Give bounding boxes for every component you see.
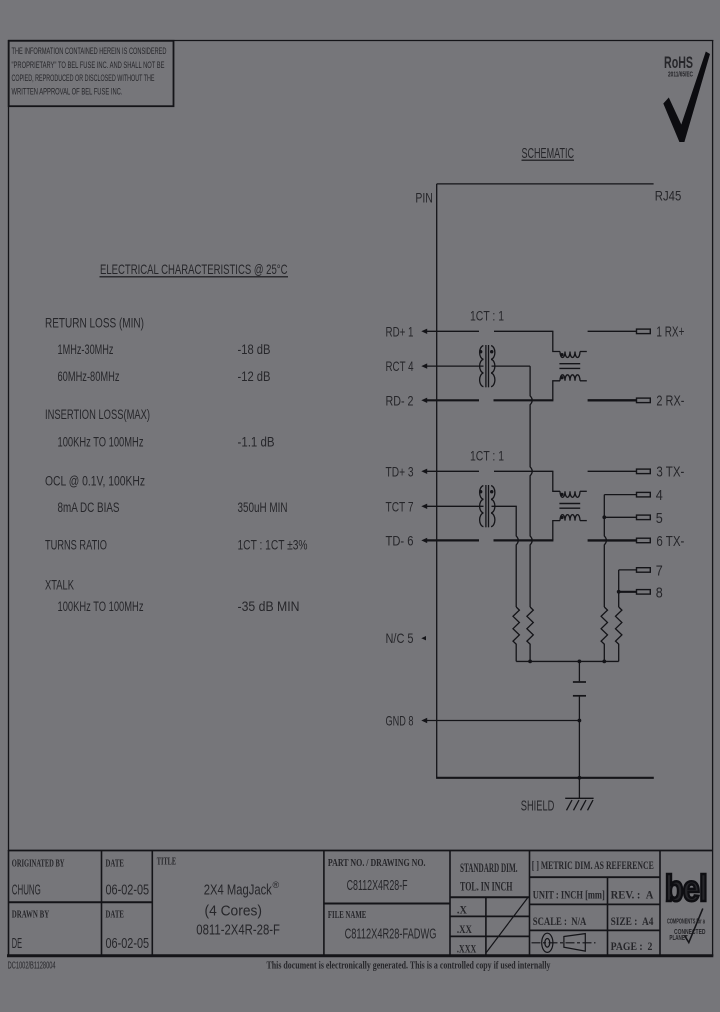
node bel swoosh [685,909,703,943]
resistor R1 (TCT termination) [513,607,519,661]
svg-text:"PROPRIETARY" TO BEL FUSE INC.: "PROPRIETARY" TO BEL FUSE INC. AND SHALL… [12,60,165,71]
node arrow RD- [421,398,427,403]
node junction R3-bus [602,660,606,664]
node L2 top phase dot [560,493,563,496]
wire pad78 vertical [618,570,620,607]
svg-text:STANDARD DIM.: STANDARD DIM. [460,860,518,875]
node arrow GND [421,718,427,723]
ROHS-LOGO [663,52,710,143]
svg-text:DE: DE [12,936,22,952]
svg-text:100KHz TO 100MHz: 100KHz TO 100MHz [58,599,144,614]
wire divider scale-page [530,929,661,931]
capacitor C1 top plate [573,681,586,683]
svg-text:2 RX-: 2 RX- [656,393,684,410]
node junction GND-shield [578,719,582,723]
pin pad 4 [637,492,651,497]
svg-text:DATE: DATE [106,858,124,869]
SPEC-TEXT-BLOCK [45,261,308,614]
symbol projection centerline [532,942,596,944]
svg-text:7: 7 [656,562,663,579]
svg-text:1CT : 1CT ±3%: 1CT : 1CT ±3% [238,538,308,553]
svg-text:SIZE : A4: SIZE : A4 [611,914,654,928]
transformer T2 secondary winding [491,486,495,527]
node T1 secondary phase dot [490,350,493,353]
pin pad 6 [637,538,651,543]
svg-text:DRAWN BY: DRAWN BY [12,909,50,920]
svg-text:2011/65/EC: 2011/65/EC [668,70,693,79]
svg-text:RETURN LOSS (MIN): RETURN LOSS (MIN) [45,316,144,331]
node arrow N/C (no wire) [421,636,426,640]
SCHEMATIC-BOX [436,184,654,778]
TITLE-BLOCK-TEXT [12,856,654,955]
svg-text:TD- 6: TD- 6 [386,532,414,548]
pin pad 3 [637,469,651,474]
node junction pad4-pad5 [602,515,606,519]
wire divider unit-scale [530,903,661,905]
wire TX+ secondary top [494,470,553,472]
wire pad6 lead [588,539,637,541]
wire page left border [8,40,10,851]
node junction shield-boxbottom [578,776,582,780]
resistor R4 (pad78 termination) [616,607,622,661]
pin pad 7 [637,568,651,573]
TERMINATION-GROUP [427,366,622,814]
BEL-LOGO [665,868,707,943]
svg-text:SHIELD: SHIELD [521,799,555,815]
svg-text:100KHz TO 100MHz: 100KHz TO 100MHz [58,435,144,450]
wire divider standard-metric [529,850,531,955]
wire pad4 lead [604,494,636,496]
wire choke L1 input bottom [553,381,560,401]
wire divider metric-bel [659,850,661,955]
wire pad1 lead [588,330,637,332]
node arrow TCT [421,504,427,509]
svg-text:INSERTION LOSS(MAX): INSERTION LOSS(MAX) [45,407,150,422]
wire divider tol row2 [450,935,530,937]
svg-text:5: 5 [656,510,663,527]
wire titleblock bottom edge [7,954,713,957]
wire RD+ primary [427,330,480,332]
svg-text:RCT 4: RCT 4 [386,358,414,374]
svg-text:-1.1 dB: -1.1 dB [238,435,275,450]
wire RCT center tap [427,365,484,367]
inductor L1 bottom winding [560,375,580,381]
svg-text:ELECTRICAL CHARACTERISTICS @ 2: ELECTRICAL CHARACTERISTICS @ 25°C [100,261,288,277]
svg-text:SCALE : N/A: SCALE : N/A [533,914,587,928]
wire divider unit-rev [607,877,609,955]
wire divider part-file [324,903,450,905]
svg-text:PART NO. / DRAWING NO.: PART NO. / DRAWING NO. [328,858,426,869]
wire choke L2 output top [580,490,587,492]
svg-text:REV. : A: REV. : A [611,888,654,902]
wire choke L2 input bottom [553,521,560,541]
wire box top edge [437,183,654,185]
svg-text:TITLE: TITLE [157,856,176,867]
svg-text:RD- 2: RD- 2 [386,392,414,408]
symbol projection ellipse inner [545,939,550,948]
svg-text:1 RX+: 1 RX+ [656,324,684,341]
svg-text:C8112X4R28-F: C8112X4R28-F [347,878,408,894]
svg-text:RD+ 1: RD+ 1 [386,323,414,339]
wire bus to capacitor [578,661,580,681]
svg-text:PIN: PIN [415,189,433,205]
node arrow TD- [421,538,427,543]
svg-text:TD+ 3: TD+ 3 [386,463,414,479]
svg-text:8: 8 [656,584,663,601]
node T1 primary phase dot [479,350,482,353]
wire TCT-tap vertical with hop [516,506,518,607]
wire choke L1 output top [580,351,587,353]
inductor L2 bottom winding [560,515,580,521]
pin pad 5 [637,515,651,520]
svg-text:8mA DC BIAS: 8mA DC BIAS [58,500,120,515]
svg-text:.XXX: .XXX [457,941,477,955]
svg-text:XTALK: XTALK [45,578,74,593]
svg-text:OCL @ 0.1V, 100KHz: OCL @ 0.1V, 100KHz [45,474,145,489]
svg-text:®: ® [273,880,280,890]
resistor R3 (pad45 termination) [601,607,607,661]
wire divider metric header [530,876,661,878]
node L1 bottom phase dot [560,376,563,379]
svg-text:60MHz-80MHz: 60MHz-80MHz [58,369,120,384]
LEFT-PIN-LABELS [386,323,414,728]
wire RX+ secondary top [494,330,553,332]
wire pad7 lead [619,569,637,571]
inductor L1 core [559,363,580,365]
transformer T1 primary winding [480,346,484,387]
pin pad 2 [637,398,651,403]
SCHEMATIC-TITLE [522,145,575,162]
wire TD- primary [427,539,480,541]
transformer T1 core [485,345,487,387]
wire tol diagonal slash [486,898,527,953]
RX-GROUP [427,308,685,409]
wire box left edge [436,184,438,778]
node arrow RCT [421,363,427,368]
svg-text:GND 8: GND 8 [386,713,414,729]
wire RX- secondary bottom [494,399,554,401]
TITLE-BLOCK-VALUES [12,878,437,952]
svg-text:TURNS RATIO: TURNS RATIO [45,538,107,553]
svg-text:PAGE : 2: PAGE : 2 [611,939,653,953]
svg-text:WRITTEN APPROVAL OF BEL FUSE I: WRITTEN APPROVAL OF BEL FUSE INC. [12,87,123,98]
wire TX- secondary bottom [494,539,554,541]
node junction R2-bus [528,660,532,664]
svg-text:-18 dB: -18 dB [238,342,271,357]
wire page top border [8,40,713,42]
svg-text:SCHEMATIC: SCHEMATIC [522,145,575,162]
pin pad 1 [637,329,651,334]
svg-text:3 TX-: 3 TX- [656,464,684,481]
svg-text:CHUNG: CHUNG [12,883,41,899]
svg-text:0811-2X4R-28-F: 0811-2X4R-28-F [196,922,280,938]
svg-text:C8112X4R28-FADWG: C8112X4R28-FADWG [345,927,437,943]
wire spec title underline [100,276,289,278]
resistor R2 (RCT termination) [527,607,533,661]
svg-text:FILE NAME: FILE NAME [328,910,366,921]
svg-text:TCT 7: TCT 7 [386,498,414,514]
wire pad45 vertical with hop [604,495,606,607]
wire RD- primary [427,399,480,401]
symbol projection cone [564,934,585,952]
wire choke L2 input top [553,471,560,491]
svg-text:-12 dB: -12 dB [238,369,271,384]
wire pad3 lead [588,470,637,472]
svg-text:N/C 5: N/C 5 [386,630,414,646]
wire pad5 lead [604,516,636,518]
svg-text:.X: .X [457,903,467,917]
svg-text:1CT : 1: 1CT : 1 [470,308,504,323]
node arrow RD+ [421,329,427,334]
svg-text:6 TX-: 6 TX- [656,533,684,550]
wire divider tol row1 [450,915,530,917]
wire pad8 lead [619,591,637,593]
svg-text:(4 Cores): (4 Cores) [205,904,263,920]
ground shield bar [565,797,593,799]
wire titleblock left edge [8,850,10,955]
capacitor C1 bottom plate [573,695,586,697]
FOOTER-NOTES [8,961,551,972]
svg-text:TOL. IN INCH: TOL. IN INCH [460,879,513,894]
DISCLAIMER-BOX [9,41,174,106]
svg-text:-35 dB MIN: -35 dB MIN [238,599,300,614]
wire secondary center tap T2 [492,505,517,507]
PROJECTION-SYMBOL [532,933,596,952]
ground shield hatch [567,800,594,810]
node T2 primary phase dot [479,490,482,493]
svg-text:4: 4 [656,487,663,504]
svg-text:UNIT : INCH [mm]: UNIT : INCH [mm] [533,888,605,902]
svg-text:DC1002/B1128004: DC1002/B1128004 [8,961,56,972]
wire divider names-date [101,850,103,955]
transformer T2 core [485,485,487,527]
svg-text:ORIGINATED BY: ORIGINATED BY [12,858,65,869]
node T2 secondary phase dot [490,490,493,493]
pin pad 8 [637,590,651,595]
node L1 top phase dot [560,353,563,356]
transformer T2 primary winding [480,486,484,527]
wire divider originated-drawn [8,901,152,903]
svg-text:RJ45: RJ45 [655,188,682,204]
svg-text:06-02-05: 06-02-05 [106,883,150,899]
wire termination bus [516,660,619,662]
symbol projection ellipse outer [542,933,553,952]
node arrow TD+ [421,469,427,474]
TX-GROUP [427,448,685,601]
TITLE-BLOCK [7,850,713,956]
wire divider title-part [323,850,325,955]
svg-text:DATE: DATE [106,909,124,920]
inductor L2 top winding [560,491,580,497]
wire divider date-title [151,850,153,955]
wire TCT center tap [427,505,484,507]
svg-text:This document is electronicall: This document is electronically generate… [267,961,551,972]
svg-text:.XX: .XX [457,922,472,936]
wire choke L2 output bottom [580,520,587,522]
wire secondary center tap [492,365,531,367]
svg-text:2X4 MagJack: 2X4 MagJack [204,882,273,898]
wire titleblock top edge [8,850,713,852]
node junction cap-bus [578,660,582,664]
node junction pad7-pad8 [617,590,621,594]
wire capacitor to shield [578,697,580,799]
svg-text:bel: bel [665,868,707,909]
svg-text:COPIED, REPRODUCED OR DISCLOSE: COPIED, REPRODUCED OR DISCLOSED WITHOUT … [12,73,155,84]
svg-text:1CT : 1: 1CT : 1 [470,448,504,463]
node L2 bottom phase dot [560,516,563,519]
wire TD+ primary [427,470,480,472]
svg-text:[ ] METRIC DIM. AS REFERENCE: [ ] METRIC DIM. AS REFERENCE [532,860,654,872]
wire GND lead [427,720,580,722]
wire divider part-standard [449,850,451,955]
svg-text:1MHz-30MHz: 1MHz-30MHz [58,342,114,357]
inductor L1 top winding [560,352,580,358]
wire divider tol label-value [485,897,487,955]
wire divider stddim header [450,896,530,898]
wire RCT-tap vertical with hops [530,366,532,607]
wire page right border [712,40,714,956]
wire pad2 lead [588,399,637,401]
svg-text:350uH MIN: 350uH MIN [238,500,288,515]
transformer T1 secondary winding [491,346,495,387]
svg-text:COMPONENTS for a: COMPONENTS for a [667,919,705,926]
inductor L2 core [559,503,580,505]
wire box bottom edge [436,777,654,779]
wire choke L1 input top [553,331,560,351]
wire choke L1 output bottom [580,380,587,382]
svg-text:THE INFORMATION CONTAINED HERE: THE INFORMATION CONTAINED HEREIN IS CONS… [12,46,167,57]
svg-text:06-02-05: 06-02-05 [106,936,150,952]
LEFT-PIN-ARROWS [421,329,427,724]
